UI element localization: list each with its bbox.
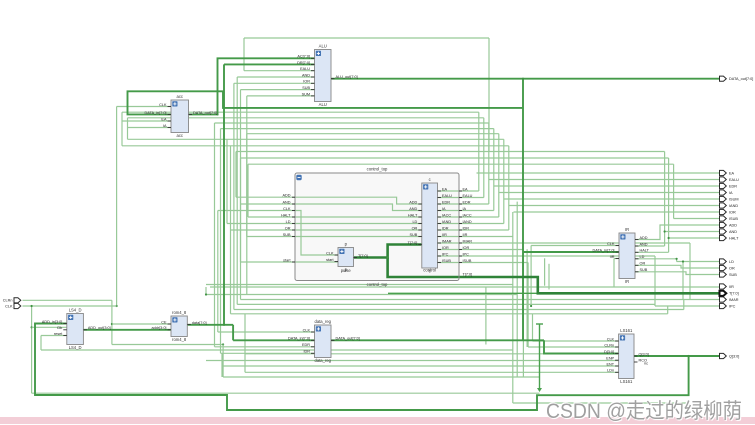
svg-text:HALT: HALT [729, 236, 739, 240]
svg-text:control: control [423, 268, 436, 273]
svg-text:EA: EA [442, 187, 448, 191]
svg-text:IA: IA [442, 207, 446, 211]
svg-text:OR: OR [285, 226, 291, 230]
svg-text:IIR: IIR [463, 233, 468, 237]
svg-text:EDR: EDR [442, 200, 450, 204]
svg-text:DATA_in[7:0]: DATA_in[7:0] [288, 337, 310, 341]
svg-text:IDR: IDR [442, 226, 449, 230]
svg-text:LD: LD [286, 220, 291, 224]
svg-text:IIR: IIR [442, 233, 447, 237]
svg-text:IMAR: IMAR [729, 298, 739, 302]
svg-text:acc: acc [176, 94, 183, 99]
svg-text:ISUM: ISUM [729, 197, 739, 201]
svg-text:rom4_8: rom4_8 [172, 337, 187, 342]
svg-text:IOR: IOR [729, 210, 736, 214]
svg-text:SUB: SUB [283, 233, 291, 237]
svg-text:DATA_in[7:0]: DATA_in[7:0] [592, 248, 614, 252]
svg-text:OR: OR [729, 266, 735, 270]
svg-text:Q[3:0]: Q[3:0] [639, 352, 649, 356]
svg-text:IDR: IDR [303, 350, 310, 354]
svg-text:CLK: CLK [303, 328, 311, 332]
svg-text:HALT: HALT [408, 213, 418, 217]
svg-text:LD: LD [640, 255, 645, 259]
svg-text:AND: AND [302, 73, 310, 77]
svg-text:D[3:0]: D[3:0] [604, 350, 614, 354]
svg-text:DATA_out[7:0]: DATA_out[7:0] [193, 111, 217, 115]
svg-text:OR: OR [640, 262, 646, 266]
svg-text:LS4_D: LS4_D [69, 308, 82, 313]
svg-text:AND: AND [409, 207, 417, 211]
svg-text:HALT: HALT [281, 213, 291, 217]
svg-text:data[7:0]: data[7:0] [192, 321, 207, 325]
svg-text:ALU: ALU [319, 44, 327, 49]
svg-text:CLK: CLK [607, 337, 615, 341]
svg-text:EALU: EALU [300, 67, 310, 71]
svg-text:ISUB: ISUB [729, 217, 738, 221]
svg-text:IACC: IACC [442, 213, 451, 217]
svg-text:CE: CE [161, 320, 167, 324]
svg-text:IOR: IOR [463, 246, 470, 250]
svg-text:EDR: EDR [302, 343, 310, 347]
svg-text:ENT: ENT [606, 362, 614, 366]
svg-text:rom4_8: rom4_8 [172, 310, 187, 315]
svg-text:T[7:0]: T[7:0] [729, 292, 739, 296]
svg-text:T[7:0]: T[7:0] [463, 273, 473, 277]
svg-text:CLRn: CLRn [3, 299, 13, 303]
svg-text:data_reg: data_reg [314, 319, 331, 324]
svg-text:IA: IA [163, 124, 167, 128]
svg-text:Clk: Clk [57, 326, 63, 330]
svg-text:addr[3:0]: addr[3:0] [152, 326, 167, 330]
svg-text:EA: EA [463, 187, 469, 191]
svg-text:ADD_in[3:0]: ADD_in[3:0] [42, 320, 62, 324]
svg-text:AND: AND [640, 242, 648, 246]
svg-text:acc: acc [176, 133, 183, 138]
svg-text:LD: LD [412, 220, 417, 224]
svg-text:AC[7:0]: AC[7:0] [297, 55, 310, 59]
svg-text:LDn: LDn [607, 369, 614, 373]
svg-text:DATA_out[7:0]: DATA_out[7:0] [729, 77, 753, 81]
svg-text:DATA_in[7:0]: DATA_in[7:0] [144, 111, 166, 115]
svg-text:start: start [283, 258, 291, 262]
svg-text:ISUB: ISUB [463, 259, 472, 263]
svg-text:nc: nc [644, 362, 648, 366]
svg-text:AND: AND [729, 230, 737, 234]
svg-text:DATA_out[7:0]: DATA_out[7:0] [336, 337, 360, 341]
svg-text:IPC: IPC [442, 252, 449, 256]
svg-text:ADD_out[3:0]: ADD_out[3:0] [88, 326, 111, 330]
svg-text:IACC: IACC [463, 213, 472, 217]
svg-text:SUB: SUB [640, 268, 648, 272]
svg-text:CLK: CLK [159, 103, 167, 107]
svg-text:IPC: IPC [729, 304, 736, 308]
svg-text:c: c [429, 177, 431, 182]
svg-text:IA: IA [729, 191, 733, 195]
svg-text:IIR: IIR [729, 285, 734, 289]
svg-text:OR: OR [412, 226, 418, 230]
svg-text:LS161: LS161 [620, 328, 633, 333]
svg-text:EA: EA [729, 171, 735, 175]
svg-text:SUB: SUB [729, 273, 737, 277]
svg-text:ALU: ALU [319, 102, 327, 107]
svg-text:IOR: IOR [442, 246, 449, 250]
svg-text:EA: EA [161, 117, 167, 121]
svg-text:IIR: IIR [610, 255, 615, 259]
svg-text:SUM: SUM [302, 92, 310, 96]
svg-text:IMAR: IMAR [463, 239, 473, 243]
svg-text:CLK: CLK [607, 242, 615, 246]
svg-text:LS4_D: LS4_D [69, 345, 82, 350]
svg-text:CLRn: CLRn [604, 343, 614, 347]
svg-text:DR[7:0]: DR[7:0] [297, 61, 310, 65]
svg-text:IAND: IAND [729, 204, 738, 208]
svg-text:EALU: EALU [729, 178, 739, 182]
svg-text:Q[3:0]: Q[3:0] [729, 354, 739, 358]
svg-text:ENP: ENP [606, 357, 614, 361]
svg-text:LD: LD [729, 260, 734, 264]
svg-text:IMAR: IMAR [442, 239, 452, 243]
svg-text:EDR: EDR [463, 200, 471, 204]
svg-text:CLK: CLK [326, 251, 334, 255]
svg-text:ALU_out[7:0]: ALU_out[7:0] [336, 75, 358, 79]
svg-text:control_top: control_top [367, 282, 388, 287]
svg-text:start: start [326, 258, 334, 262]
svg-text:IR: IR [625, 279, 629, 284]
svg-text:T[7:0]: T[7:0] [408, 241, 418, 245]
svg-text:IAND: IAND [463, 220, 472, 224]
svg-text:EALU: EALU [463, 194, 473, 198]
svg-text:reset: reset [54, 332, 63, 336]
svg-text:IOR: IOR [303, 80, 310, 84]
svg-text:LS161: LS161 [620, 379, 633, 384]
svg-text:ADD: ADD [409, 200, 417, 204]
svg-text:ADD: ADD [640, 236, 648, 240]
svg-text:T[7:0]: T[7:0] [358, 254, 368, 258]
svg-text:IR: IR [625, 227, 629, 232]
svg-text:IA: IA [463, 207, 467, 211]
svg-text:AND: AND [282, 200, 290, 204]
svg-text:IAND: IAND [442, 220, 451, 224]
svg-text:data_reg: data_reg [314, 358, 331, 363]
svg-text:SUB: SUB [409, 233, 417, 237]
svg-text:control_top: control_top [367, 167, 388, 172]
svg-text:EALU: EALU [442, 194, 452, 198]
svg-text:IDR: IDR [463, 226, 470, 230]
svg-text:pulse: pulse [341, 268, 352, 273]
svg-text:SUB: SUB [302, 86, 310, 90]
svg-text:ISUB: ISUB [442, 259, 451, 263]
svg-text:HALT: HALT [640, 249, 650, 253]
svg-text:CLK: CLK [5, 304, 13, 308]
svg-text:ADD: ADD [282, 194, 290, 198]
svg-text:CLK: CLK [283, 207, 291, 211]
svg-text:EDR: EDR [729, 184, 737, 188]
svg-text:IPC: IPC [463, 252, 470, 256]
svg-text:ADD: ADD [729, 223, 737, 227]
